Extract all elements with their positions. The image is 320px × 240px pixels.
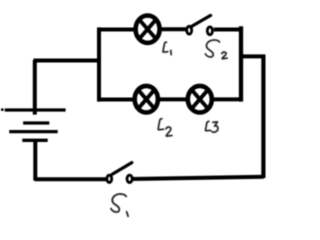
wire: top branch middle segment (L1 to S2) <box>160 27 187 31</box>
label S1 <box>111 194 128 216</box>
wire: bottom left segment <box>35 177 107 181</box>
stray ink dot left of battery <box>1 108 4 111</box>
battery B1 plate 1 (long, positive) <box>5 108 66 111</box>
lamp L3 <box>188 86 212 113</box>
wire: top branch right segment (S2 to right bar) <box>214 28 243 32</box>
wire: left horizontal (to left junction bar) <box>34 59 100 63</box>
switch S1 <box>107 163 132 183</box>
lamp L1 <box>136 16 160 43</box>
wire: bottom branch left segment <box>97 98 134 102</box>
switch S2 <box>187 15 213 34</box>
wire: bottom branch middle segment (L2 to L3) <box>159 97 187 101</box>
battery B1 plate 4 (short, negative) <box>22 139 47 142</box>
wire: left vertical (battery negative to bottom wire) <box>33 141 37 181</box>
wire: left junction bar <box>97 27 101 101</box>
label S2 <box>205 40 227 59</box>
label L1 <box>163 42 171 54</box>
label L3 <box>205 121 217 132</box>
wire: right vertical <box>261 55 265 178</box>
lamp L2 <box>135 86 158 113</box>
battery B1 plate 3 (long) <box>9 130 58 133</box>
wire: bottom branch right segment (L3 to right bar) <box>213 97 244 101</box>
label L2 <box>158 119 172 136</box>
wire: bottom right segment <box>132 177 264 179</box>
wire: stub from right bar to right vertical <box>241 54 265 58</box>
wire: top branch left segment <box>97 28 135 32</box>
wire: left vertical (battery positive to top) <box>33 60 37 115</box>
wire: right junction bar <box>239 26 243 101</box>
battery B1 plate 2 (short) <box>23 121 49 124</box>
